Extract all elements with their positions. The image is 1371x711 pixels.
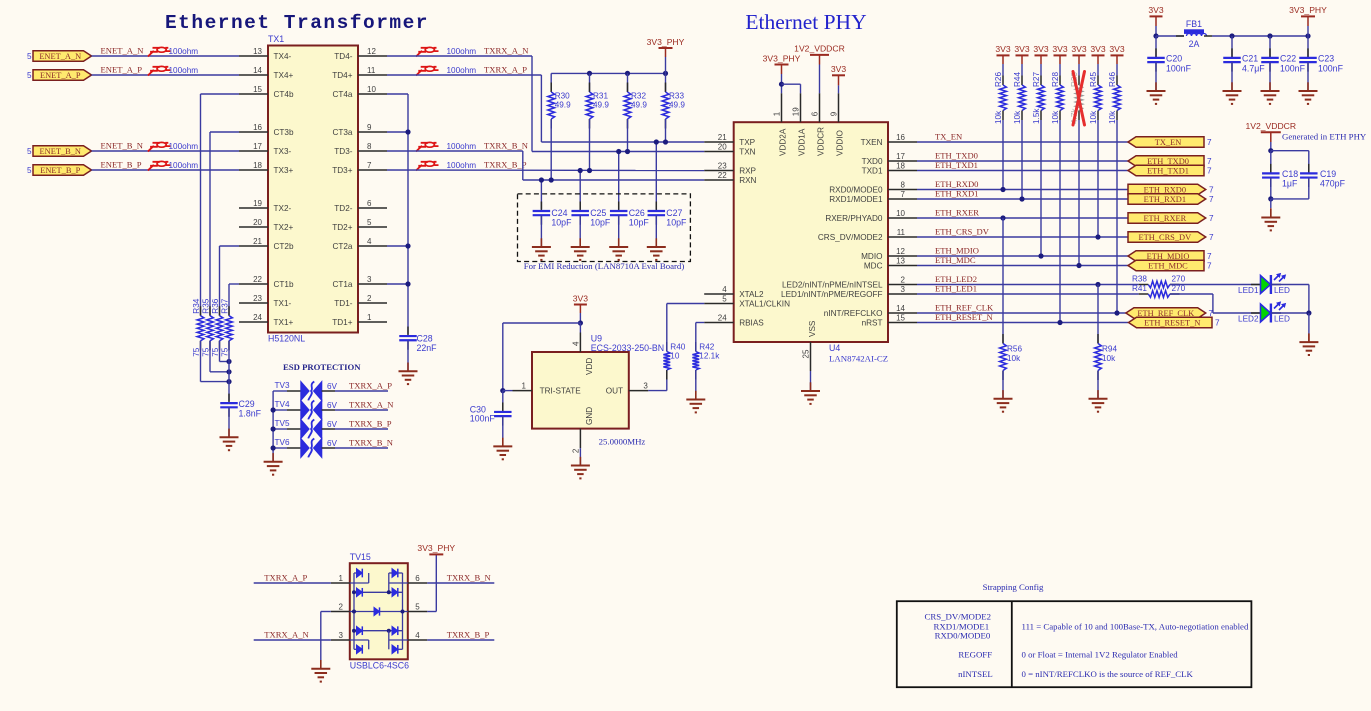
- svg-text:12: 12: [367, 47, 376, 56]
- svg-text:nINTSEL: nINTSEL: [958, 669, 993, 679]
- svg-text:GND: GND: [585, 407, 594, 425]
- svg-text:75: 75: [202, 347, 211, 357]
- svg-text:470pF: 470pF: [1320, 179, 1346, 189]
- svg-text:1.5k: 1.5k: [1032, 108, 1041, 124]
- svg-text:100ohm: 100ohm: [447, 142, 477, 151]
- svg-text:CT2a: CT2a: [332, 242, 352, 251]
- svg-text:6V: 6V: [327, 382, 338, 391]
- svg-text:ETH_RXD0: ETH_RXD0: [1144, 185, 1186, 194]
- svg-text:100ohm: 100ohm: [447, 66, 477, 75]
- svg-text:3V3_PHY: 3V3_PHY: [1289, 5, 1327, 15]
- svg-text:TXP: TXP: [739, 138, 755, 147]
- svg-text:8: 8: [901, 180, 906, 189]
- svg-text:18: 18: [253, 161, 262, 170]
- svg-text:7: 7: [1207, 252, 1212, 261]
- svg-text:C23: C23: [1318, 54, 1334, 64]
- svg-text:3V3_PHY: 3V3_PHY: [763, 53, 801, 63]
- svg-text:100ohm: 100ohm: [447, 47, 477, 56]
- svg-text:TD4-: TD4-: [334, 52, 352, 61]
- svg-text:ETH_RESET_N: ETH_RESET_N: [935, 312, 994, 322]
- svg-text:10pF: 10pF: [629, 218, 650, 228]
- svg-text:TXRX_A_P: TXRX_A_P: [484, 64, 527, 74]
- svg-text:3V3: 3V3: [1148, 5, 1164, 15]
- svg-text:R30: R30: [555, 92, 570, 101]
- svg-text:3V3: 3V3: [1071, 44, 1087, 54]
- svg-text:2: 2: [572, 448, 581, 453]
- svg-text:5: 5: [27, 52, 32, 61]
- svg-text:10k: 10k: [1007, 354, 1021, 363]
- svg-text:ENET_A_P: ENET_A_P: [101, 64, 143, 74]
- svg-text:R32: R32: [631, 92, 646, 101]
- svg-text:TX1: TX1: [268, 34, 284, 44]
- svg-text:MDC: MDC: [864, 262, 883, 271]
- svg-text:For EMI Reduction (LAN8710A Ev: For EMI Reduction (LAN8710A Eval Board): [524, 261, 685, 271]
- svg-text:LED: LED: [1274, 315, 1290, 324]
- svg-text:C26: C26: [629, 208, 645, 218]
- svg-text:CT1a: CT1a: [332, 280, 352, 289]
- svg-text:R36: R36: [211, 298, 220, 313]
- svg-text:100ohm: 100ohm: [169, 47, 199, 56]
- svg-text:10: 10: [670, 352, 680, 361]
- svg-text:TD1-: TD1-: [334, 299, 352, 308]
- svg-text:TX2-: TX2-: [274, 204, 292, 213]
- svg-text:TX3+: TX3+: [274, 166, 294, 175]
- svg-text:21: 21: [253, 237, 262, 246]
- svg-text:TXD0: TXD0: [862, 157, 883, 166]
- svg-text:3V3: 3V3: [1014, 44, 1030, 54]
- svg-text:11: 11: [897, 228, 906, 237]
- svg-text:ETH_CRS_DV: ETH_CRS_DV: [935, 226, 990, 236]
- svg-text:15: 15: [896, 313, 905, 322]
- svg-text:ETH_RXER: ETH_RXER: [935, 207, 979, 217]
- svg-text:5: 5: [722, 295, 727, 304]
- svg-text:R40: R40: [670, 343, 685, 352]
- svg-text:ETH_CRS_DV: ETH_CRS_DV: [1139, 233, 1192, 242]
- svg-text:ETH_TXD1: ETH_TXD1: [1147, 166, 1189, 175]
- svg-text:20: 20: [718, 143, 727, 152]
- svg-text:TX4-: TX4-: [274, 52, 292, 61]
- svg-text:49.9: 49.9: [555, 101, 571, 110]
- svg-text:21: 21: [718, 133, 727, 142]
- svg-text:OUT: OUT: [606, 387, 623, 396]
- svg-text:4: 4: [367, 237, 372, 246]
- svg-text:7: 7: [1207, 262, 1212, 271]
- svg-text:R94: R94: [1102, 345, 1117, 354]
- svg-text:CT3b: CT3b: [274, 128, 294, 137]
- svg-text:13: 13: [896, 256, 905, 265]
- svg-text:Generated in ETH PHY: Generated in ETH PHY: [1282, 132, 1367, 142]
- svg-text:TD2+: TD2+: [332, 223, 352, 232]
- svg-text:7: 7: [1207, 157, 1212, 166]
- svg-text:3: 3: [367, 275, 372, 284]
- svg-text:3V3: 3V3: [1109, 44, 1125, 54]
- svg-text:TXRX_B_N: TXRX_B_N: [447, 572, 492, 582]
- svg-text:17: 17: [896, 152, 905, 161]
- svg-text:CT1b: CT1b: [274, 280, 294, 289]
- svg-text:3V3: 3V3: [1052, 44, 1068, 54]
- svg-text:ETH_RXD1: ETH_RXD1: [1144, 195, 1186, 204]
- svg-text:23: 23: [253, 294, 262, 303]
- svg-text:10pF: 10pF: [666, 218, 687, 228]
- svg-text:RXER/PHYAD0: RXER/PHYAD0: [825, 214, 883, 223]
- svg-text:LED2: LED2: [1238, 315, 1259, 324]
- svg-text:12.1k: 12.1k: [699, 352, 720, 361]
- svg-text:TXN: TXN: [739, 148, 755, 157]
- svg-text:6V: 6V: [327, 439, 338, 448]
- svg-text:7: 7: [1209, 233, 1214, 242]
- svg-text:ETH_RESET_N: ETH_RESET_N: [1144, 318, 1200, 327]
- svg-text:C19: C19: [1320, 169, 1336, 179]
- svg-text:1: 1: [339, 574, 344, 583]
- svg-text:9: 9: [830, 111, 839, 116]
- svg-text:3V3: 3V3: [1090, 44, 1106, 54]
- svg-text:ENET_A_N: ENET_A_N: [101, 45, 145, 55]
- svg-text:TXRX_A_N: TXRX_A_N: [349, 399, 394, 409]
- svg-text:10k: 10k: [1089, 110, 1098, 124]
- svg-text:ETH_RXD1: ETH_RXD1: [935, 188, 978, 198]
- svg-text:19: 19: [253, 199, 262, 208]
- svg-text:1.8nF: 1.8nF: [239, 409, 262, 419]
- svg-text:3: 3: [339, 631, 344, 640]
- svg-text:3V3: 3V3: [831, 64, 847, 74]
- svg-text:LAN8742AI-CZ: LAN8742AI-CZ: [829, 354, 888, 364]
- svg-text:6: 6: [367, 199, 372, 208]
- svg-text:1μF: 1μF: [1282, 179, 1298, 189]
- svg-text:TRI-STATE: TRI-STATE: [540, 387, 582, 396]
- svg-text:U9: U9: [591, 334, 602, 344]
- svg-text:10: 10: [896, 209, 905, 218]
- svg-text:7: 7: [367, 161, 372, 170]
- svg-text:TV15: TV15: [350, 552, 371, 562]
- svg-text:100nF: 100nF: [470, 414, 496, 424]
- svg-text:100nF: 100nF: [1280, 64, 1306, 74]
- svg-text:3V3: 3V3: [995, 44, 1011, 54]
- svg-text:100ohm: 100ohm: [169, 66, 199, 75]
- svg-text:C29: C29: [239, 399, 255, 409]
- svg-text:TXRX_B_P: TXRX_B_P: [447, 629, 490, 639]
- svg-text:100nF: 100nF: [1318, 64, 1344, 74]
- svg-text:22: 22: [253, 275, 262, 284]
- svg-text:ENET_A_P: ENET_A_P: [40, 71, 81, 80]
- svg-text:TX_EN: TX_EN: [1155, 138, 1182, 147]
- svg-text:7: 7: [1209, 195, 1214, 204]
- svg-text:3V3_PHY: 3V3_PHY: [417, 543, 455, 553]
- svg-text:49.9: 49.9: [631, 101, 647, 110]
- svg-text:24: 24: [253, 313, 262, 322]
- svg-text:TX4+: TX4+: [274, 71, 294, 80]
- svg-text:CT3a: CT3a: [332, 128, 352, 137]
- svg-text:18: 18: [896, 161, 905, 170]
- svg-text:10k: 10k: [1102, 354, 1116, 363]
- svg-text:3: 3: [901, 285, 906, 294]
- svg-text:C24: C24: [551, 208, 567, 218]
- svg-text:5: 5: [27, 147, 32, 156]
- svg-text:7: 7: [901, 190, 906, 199]
- svg-text:6: 6: [415, 574, 420, 583]
- svg-text:TXRX_B_P: TXRX_B_P: [484, 159, 527, 169]
- svg-text:13: 13: [253, 47, 262, 56]
- svg-text:5: 5: [27, 71, 32, 80]
- svg-text:1: 1: [367, 313, 372, 322]
- svg-text:C20: C20: [1166, 54, 1182, 64]
- svg-text:111 = Capable of 10 and 100Bas: 111 = Capable of 10 and 100Base-TX, Auto…: [1022, 622, 1249, 632]
- svg-text:4: 4: [722, 285, 727, 294]
- svg-text:1: 1: [522, 381, 527, 390]
- svg-text:10pF: 10pF: [551, 218, 572, 228]
- svg-text:TD4+: TD4+: [332, 71, 352, 80]
- svg-text:1: 1: [773, 111, 782, 116]
- svg-text:VDDCR: VDDCR: [817, 127, 826, 156]
- svg-text:3V3_PHY: 3V3_PHY: [647, 37, 685, 47]
- svg-text:8: 8: [367, 142, 372, 151]
- svg-text:R27: R27: [1032, 72, 1041, 87]
- svg-text:R28: R28: [1051, 72, 1060, 87]
- svg-text:TXRX_A_P: TXRX_A_P: [349, 380, 392, 390]
- svg-text:RBIAS: RBIAS: [739, 319, 764, 328]
- svg-text:XTAL1/CLKIN: XTAL1/CLKIN: [739, 300, 790, 309]
- svg-text:ETH_LED2: ETH_LED2: [935, 274, 977, 284]
- svg-text:CRS_DV/MODE2: CRS_DV/MODE2: [818, 233, 883, 242]
- svg-text:3V3: 3V3: [1033, 44, 1049, 54]
- svg-text:R56: R56: [1007, 345, 1022, 354]
- svg-text:10k: 10k: [1013, 110, 1022, 124]
- svg-text:ETH_MDC: ETH_MDC: [1148, 261, 1188, 270]
- svg-text:MDIO: MDIO: [861, 252, 882, 261]
- svg-text:C18: C18: [1282, 169, 1298, 179]
- svg-text:ENET_B_P: ENET_B_P: [40, 166, 80, 175]
- svg-text:FB1: FB1: [1186, 19, 1202, 29]
- svg-text:TXRX_A_N: TXRX_A_N: [484, 45, 529, 55]
- svg-text:100nF: 100nF: [1166, 64, 1192, 74]
- svg-text:R35: R35: [202, 298, 211, 313]
- svg-text:3V3: 3V3: [573, 293, 589, 303]
- svg-text:ETH_LED1: ETH_LED1: [935, 283, 977, 293]
- svg-text:REGOFF: REGOFF: [958, 650, 992, 660]
- svg-text:10: 10: [367, 85, 376, 94]
- svg-text:RXD1/MODE1: RXD1/MODE1: [829, 195, 883, 204]
- svg-text:TV3: TV3: [275, 381, 290, 390]
- svg-text:ENET_A_N: ENET_A_N: [39, 52, 81, 61]
- svg-text:9: 9: [367, 123, 372, 132]
- svg-text:ETH_MDC: ETH_MDC: [935, 255, 976, 265]
- svg-text:ECS-2033-250-BN: ECS-2033-250-BN: [591, 343, 664, 353]
- svg-text:16: 16: [253, 123, 262, 132]
- svg-text:TXRX_B_P: TXRX_B_P: [349, 418, 392, 428]
- svg-text:7: 7: [1207, 167, 1212, 176]
- svg-text:TXEN: TXEN: [861, 138, 883, 147]
- svg-text:4: 4: [415, 631, 420, 640]
- svg-text:2: 2: [339, 603, 344, 612]
- svg-text:R34: R34: [192, 298, 201, 313]
- svg-text:LED2/nINT/nPME/nINTSEL: LED2/nINT/nPME/nINTSEL: [782, 281, 883, 290]
- svg-text:ETH_RXER: ETH_RXER: [1143, 214, 1186, 223]
- svg-text:0 = nINT/REFCLKO is the source: 0 = nINT/REFCLKO is the source of REF_CL…: [1022, 669, 1194, 679]
- svg-text:VDD2A: VDD2A: [779, 128, 788, 156]
- svg-text:ETH_TXD0: ETH_TXD0: [1147, 157, 1189, 166]
- svg-text:Ethernet PHY: Ethernet PHY: [745, 10, 866, 34]
- svg-text:3: 3: [643, 381, 648, 390]
- svg-text:0 or Float = Internal 1V2 Regu: 0 or Float = Internal 1V2 Regulator Enab…: [1022, 650, 1179, 660]
- svg-text:R38: R38: [1132, 275, 1147, 284]
- svg-text:H5120NL: H5120NL: [268, 334, 305, 344]
- svg-text:CRS_DV/MODE2: CRS_DV/MODE2: [925, 612, 991, 622]
- svg-text:24: 24: [718, 314, 727, 323]
- svg-text:6V: 6V: [327, 420, 338, 429]
- svg-text:2: 2: [901, 275, 906, 284]
- svg-text:R42: R42: [699, 343, 714, 352]
- svg-text:VDD1A: VDD1A: [798, 128, 807, 156]
- svg-text:75: 75: [211, 347, 220, 357]
- svg-text:5: 5: [27, 166, 32, 175]
- svg-text:TX_EN: TX_EN: [935, 131, 963, 141]
- svg-text:270: 270: [1172, 275, 1186, 284]
- svg-text:R45: R45: [1089, 72, 1098, 87]
- svg-text:TXRX_B_N: TXRX_B_N: [349, 437, 394, 447]
- svg-text:VDD: VDD: [585, 358, 594, 375]
- svg-text:LED1/nINT/nPME/REGOFF: LED1/nINT/nPME/REGOFF: [781, 290, 882, 299]
- svg-text:CT4b: CT4b: [274, 90, 294, 99]
- svg-text:CT4a: CT4a: [332, 90, 352, 99]
- svg-text:22: 22: [718, 171, 727, 180]
- svg-text:14: 14: [896, 304, 905, 313]
- svg-text:49.9: 49.9: [593, 101, 609, 110]
- svg-text:6: 6: [811, 111, 820, 116]
- svg-text:1V2_VDDCR: 1V2_VDDCR: [1245, 121, 1296, 131]
- svg-text:TD3+: TD3+: [332, 166, 352, 175]
- svg-text:25: 25: [801, 349, 810, 358]
- svg-text:C28: C28: [417, 334, 433, 344]
- svg-text:C27: C27: [666, 208, 682, 218]
- svg-text:U4: U4: [829, 343, 840, 353]
- svg-text:11: 11: [367, 66, 376, 75]
- svg-text:Strapping Config: Strapping Config: [983, 582, 1044, 592]
- svg-text:TD1+: TD1+: [332, 318, 352, 327]
- svg-text:20: 20: [253, 218, 262, 227]
- svg-text:ETH_MDIO: ETH_MDIO: [935, 245, 979, 255]
- svg-text:4.7μF: 4.7μF: [1242, 64, 1265, 74]
- svg-text:14: 14: [253, 66, 262, 75]
- svg-text:USBLC6-4SC6: USBLC6-4SC6: [350, 661, 409, 671]
- svg-text:19: 19: [792, 107, 801, 116]
- svg-text:75: 75: [221, 347, 230, 357]
- svg-text:VDDIO: VDDIO: [836, 130, 845, 156]
- svg-text:R46: R46: [1108, 72, 1117, 87]
- svg-text:1V2_VDDCR: 1V2_VDDCR: [794, 44, 845, 54]
- svg-text:TD2-: TD2-: [334, 204, 352, 213]
- svg-text:15: 15: [253, 85, 262, 94]
- svg-text:LED1: LED1: [1238, 286, 1259, 295]
- svg-text:TV4: TV4: [275, 400, 290, 409]
- svg-text:23: 23: [718, 162, 727, 171]
- svg-text:2A: 2A: [1189, 39, 1200, 49]
- svg-text:7: 7: [1209, 214, 1214, 223]
- svg-text:25.0000MHz: 25.0000MHz: [599, 437, 646, 447]
- svg-text:TX3-: TX3-: [274, 147, 292, 156]
- svg-text:RXP: RXP: [739, 167, 756, 176]
- svg-text:12: 12: [896, 247, 905, 256]
- svg-text:TV6: TV6: [275, 438, 290, 447]
- svg-text:R33: R33: [669, 92, 684, 101]
- svg-text:75: 75: [192, 347, 201, 357]
- svg-text:R41: R41: [1132, 284, 1147, 293]
- svg-text:R26: R26: [994, 72, 1003, 87]
- svg-text:TX2+: TX2+: [274, 223, 294, 232]
- svg-text:TXRX_A_N: TXRX_A_N: [264, 629, 309, 639]
- svg-text:ENET_B_P: ENET_B_P: [101, 159, 142, 169]
- svg-text:TV5: TV5: [275, 419, 290, 428]
- svg-text:270: 270: [1172, 284, 1186, 293]
- svg-text:ETH_REF_CLK: ETH_REF_CLK: [935, 302, 994, 312]
- svg-text:RXD0/MODE0: RXD0/MODE0: [935, 631, 991, 641]
- svg-text:TXD1: TXD1: [862, 167, 883, 176]
- svg-text:TD3-: TD3-: [334, 147, 352, 156]
- svg-text:VSS: VSS: [808, 320, 817, 337]
- svg-text:10k: 10k: [1108, 110, 1117, 124]
- svg-text:ENET_B_N: ENET_B_N: [40, 147, 81, 156]
- svg-text:ENET_B_N: ENET_B_N: [101, 140, 144, 150]
- svg-text:49.9: 49.9: [669, 101, 685, 110]
- svg-text:10pF: 10pF: [590, 218, 611, 228]
- svg-text:100ohm: 100ohm: [169, 161, 199, 170]
- svg-text:TXRX_B_N: TXRX_B_N: [484, 140, 529, 150]
- svg-text:5: 5: [415, 603, 420, 612]
- svg-text:R37: R37: [221, 298, 230, 313]
- svg-text:7: 7: [1207, 138, 1212, 147]
- svg-text:10k: 10k: [994, 110, 1003, 124]
- svg-text:100ohm: 100ohm: [169, 142, 199, 151]
- svg-text:C25: C25: [590, 208, 606, 218]
- svg-text:2: 2: [367, 294, 372, 303]
- svg-text:22nF: 22nF: [417, 343, 438, 353]
- svg-text:7: 7: [1215, 319, 1220, 328]
- svg-text:16: 16: [896, 133, 905, 142]
- svg-text:nRST: nRST: [862, 319, 883, 328]
- svg-text:ETH_TXD1: ETH_TXD1: [935, 160, 978, 170]
- svg-text:TX1-: TX1-: [274, 299, 292, 308]
- svg-text:4: 4: [572, 341, 581, 346]
- svg-text:nINT/REFCLKO: nINT/REFCLKO: [824, 309, 883, 318]
- svg-text:10k: 10k: [1051, 110, 1060, 124]
- svg-text:C22: C22: [1280, 54, 1296, 64]
- svg-text:R44: R44: [1013, 72, 1022, 87]
- svg-text:XTAL2: XTAL2: [739, 290, 764, 299]
- svg-text:R31: R31: [593, 92, 608, 101]
- svg-text:17: 17: [253, 142, 262, 151]
- svg-text:Ethernet Transformer: Ethernet Transformer: [165, 12, 429, 34]
- svg-text:100ohm: 100ohm: [447, 161, 477, 170]
- svg-text:5: 5: [367, 218, 372, 227]
- svg-text:ESD PROTECTION: ESD PROTECTION: [283, 362, 361, 372]
- svg-text:RXD0/MODE0: RXD0/MODE0: [829, 186, 883, 195]
- svg-text:C21: C21: [1242, 54, 1258, 64]
- svg-text:7: 7: [1209, 186, 1214, 195]
- svg-text:TXRX_A_P: TXRX_A_P: [264, 572, 307, 582]
- svg-text:RXN: RXN: [739, 176, 756, 185]
- svg-text:ETH_RXD0: ETH_RXD0: [935, 179, 978, 189]
- svg-text:TX1+: TX1+: [274, 318, 294, 327]
- svg-text:CT2b: CT2b: [274, 242, 294, 251]
- svg-text:6V: 6V: [327, 401, 338, 410]
- svg-text:ETH_TXD0: ETH_TXD0: [935, 150, 978, 160]
- svg-text:LED: LED: [1274, 286, 1290, 295]
